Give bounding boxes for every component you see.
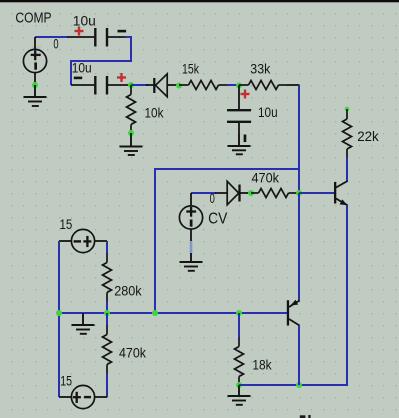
svg-text:0: 0 [53,36,58,52]
transistor Q2 base bar [287,300,289,325]
svg-text:0: 0 [210,190,215,206]
wire 18k top [238,313,240,337]
node dot row313 left [56,310,62,316]
voltage source V3 lead right [95,396,108,398]
svg-text:470k: 470k [252,169,280,185]
wire 15k to node [227,84,239,86]
wire Q2 collector down [298,326,300,386]
svg-text:15: 15 [60,216,73,232]
node dot D2-R470k [248,190,254,196]
wire row313 down to 470k left [106,313,108,325]
node dot row313 mid [152,310,158,316]
wire 470k to V3 [106,373,108,397]
wire V2 left down to row313 [58,241,60,397]
wire node to Q1 base [299,192,334,194]
capacitor C2 left lead [71,84,95,86]
node dot C2 out [128,82,134,88]
voltage source V3 circle [71,385,94,408]
wire V1 top to C1 [35,36,68,38]
diode D1 cathode bar [153,78,155,93]
node dot V1-gnd [32,82,38,88]
capacitor C3 plus mark [241,90,250,99]
voltage source CV plus [186,207,196,217]
voltage source V1 lead top [34,37,36,50]
ground on row313 [72,313,95,334]
svg-text:18k: 18k [252,356,272,372]
wire 280k to row313 [106,301,108,313]
diode D1 lead left [146,84,154,86]
wire CV bottom (highlighted) [190,241,193,254]
transistor Q1 base bar [334,182,336,204]
svg-text:10k: 10k [145,105,165,121]
wire node down to Q2 emitter [298,193,300,301]
wire branch left at y169 [155,169,299,313]
transistor Q2 collector [289,319,300,326]
capacitor C3 top lead [238,85,240,110]
ground below 18k [228,385,251,405]
voltage source V1 minus (rotated vertical) [34,63,37,70]
capacitor C2 right lead [107,84,131,86]
voltage source V2 minus [74,240,81,242]
top window border bar [0,0,399,2]
node dot R470k-Q1base [296,190,302,196]
voltage source V1 circle [23,49,46,72]
voltage source CV lead top [190,193,192,206]
wire C1 right corner down [71,37,131,85]
transistor Q2 emitter [289,301,300,308]
diode D1 triangle [156,74,168,97]
voltage source V2 lead right [95,240,108,242]
ground below C3 [228,134,251,154]
capacitor C2 plus mark [117,73,126,82]
node dot 18k bottom [236,382,242,388]
wire 33k right to long vertical [287,84,300,86]
svg-text:10u: 10u [73,13,96,29]
voltage source V1 lead bottom [34,73,36,86]
resistor 470k left [103,325,112,373]
svg-text:CV: CV [208,211,227,228]
resistor 18k [235,337,244,385]
capacitor C1 10u plates [95,28,107,47]
wire row385 [239,384,348,386]
voltage source V3 plus [73,392,81,403]
svg-text:10u: 10u [72,60,92,76]
voltage source V3 lead left [59,396,72,398]
wire C2 to D1 [131,84,148,86]
voltage source V2 circle [71,229,94,252]
wire row313 [59,312,287,314]
voltage source V1 plus [31,50,41,60]
voltage source CV lead bottom [190,229,192,242]
resistor 33k [239,81,287,90]
svg-text:15: 15 [60,372,72,388]
ground below CV [180,253,203,271]
voltage source V2 plus [83,236,91,247]
capacitor C1 plus mark [75,27,84,36]
artifact above V1 [32,44,42,46]
transistor Q1 emitter arrow [340,199,348,205]
capacitor C2 plates [95,76,107,95]
node dot R15k-R33k-C3 [236,83,242,89]
svg-text:470k: 470k [119,344,147,360]
ground below 10k [120,133,143,155]
voltage source V2 lead left [59,240,72,242]
wire V2 right corner down [106,241,108,253]
clipped text bottom edge [300,415,306,418]
svg-text:10u: 10u [258,104,278,120]
resistor 280k [103,253,112,301]
diode D2 lead right [239,192,251,194]
diode D1 lead right [167,84,179,86]
capacitor C1 minus mark [118,30,127,33]
node dot D1-R15k [176,83,182,89]
ground below V1 [24,85,47,106]
resistor 15k [179,81,227,90]
capacitor C1 right lead [107,36,126,38]
resistor 10k [127,85,136,133]
svg-text:COMP: COMP [15,9,51,26]
resistor 470k horizontal [251,189,299,198]
svg-text:22k: 22k [357,128,379,144]
capacitor C2 minus mark [74,77,82,80]
capacitor C3 bottom lead [238,122,240,134]
diode D2 lead left [215,192,227,194]
node dot row313 R280k [104,310,110,316]
transistor Q1 collector [336,181,348,188]
svg-text:15k: 15k [182,60,200,76]
wire CV to D2 [191,192,216,194]
voltage source CV circle [179,206,202,229]
wire Q1 emitter down to row385 [299,205,347,385]
capacitor C3 minus mark (rotated vertical) [244,135,247,143]
node dot 22k open terminal [345,107,350,112]
wire C1 left lead [67,36,95,38]
resistor 22k [343,109,352,157]
diode D2 cathode bar [238,185,240,202]
transistor Q1 emitter [336,199,348,206]
svg-text:280k: 280k [114,282,142,298]
node dot 10k bottom [128,130,134,136]
voltage source V3 minus [84,396,91,398]
svg-text:33k: 33k [250,60,271,76]
node dot Q2 collector row385 [296,382,302,388]
capacitor C3 plates [227,110,251,122]
node dot row313 18k [236,310,242,316]
diode D2 triangle [227,181,239,204]
transistor Q2 emitter arrow [291,300,299,306]
voltage source CV minus (rotated vertical) [190,220,193,227]
wire 22k to Q1 collector [346,157,348,182]
